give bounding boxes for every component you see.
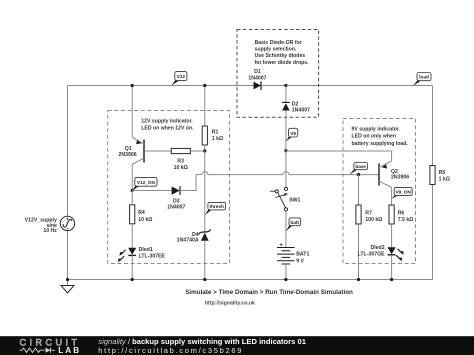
wire bottom ground rail	[68, 279, 433, 281]
junction bottom rail x=286	[284, 278, 287, 281]
wire D2 drop	[285, 86, 287, 151]
svg-text:10 kΩ: 10 kΩ	[138, 217, 152, 223]
node base	[349, 163, 367, 175]
svg-text:V9: V9	[290, 131, 296, 136]
diode D1	[254, 81, 262, 90]
svg-text:LTL-307GE: LTL-307GE	[358, 251, 386, 257]
resistor R6	[389, 188, 394, 248]
junction V12_ON	[131, 189, 134, 192]
svg-text:R7: R7	[365, 211, 372, 217]
node thresh	[205, 202, 226, 215]
junction top rail x=132	[131, 84, 134, 87]
svg-text:12V supply indicator.: 12V supply indicator.	[141, 119, 193, 125]
svg-text:1N4740A: 1N4740A	[177, 238, 199, 244]
footer title text	[98, 337, 306, 346]
resistor R1	[202, 126, 207, 151]
logo LAB	[58, 346, 81, 355]
wire Q1 emitter drop	[131, 86, 133, 138]
svg-text:2N3906: 2N3906	[119, 152, 137, 158]
svg-text:R6: R6	[398, 211, 405, 217]
svg-text:Dled2: Dled2	[370, 245, 384, 251]
svg-text:for lower diode drops.: for lower diode drops.	[255, 60, 310, 66]
svg-text:thresh: thresh	[210, 204, 224, 209]
svg-text:SW1: SW1	[289, 197, 300, 203]
svg-text:1 kΩ: 1 kΩ	[212, 136, 223, 142]
svg-text:base: base	[355, 164, 366, 169]
wire right load vertical	[432, 86, 434, 280]
node V12_ON	[132, 177, 157, 190]
wire Q1 collector drop	[131, 165, 133, 191]
svg-text:R4: R4	[138, 210, 145, 216]
resistor R5	[430, 166, 435, 185]
svg-text:Use Schottky diodes: Use Schottky diodes	[255, 53, 306, 59]
junction bottom rail x=358	[357, 278, 360, 281]
svg-text:10 kΩ: 10 kΩ	[174, 165, 188, 171]
svg-text:9V supply indicator.: 9V supply indicator.	[352, 127, 401, 133]
resistor R3	[171, 148, 205, 153]
node batt	[286, 218, 301, 231]
svg-text:LTL-307EE: LTL-307EE	[139, 253, 166, 259]
diode D2	[282, 102, 290, 110]
junction bottom rail x=132	[131, 278, 134, 281]
label D4 1N4740A	[177, 232, 199, 244]
svg-text:LAB: LAB	[58, 346, 81, 355]
svg-text:2N3906: 2N3906	[391, 174, 409, 180]
note text 12V indicator	[141, 119, 194, 132]
label BAT1 9V	[296, 252, 309, 265]
label R4 10k	[138, 210, 152, 223]
ground	[61, 280, 74, 294]
svg-text:http://signality.co.uk: http://signality.co.uk	[205, 300, 255, 306]
zener diode D4	[199, 230, 211, 280]
svg-text:LED on only when: LED on only when	[352, 134, 397, 140]
junction R1/R3	[203, 149, 206, 152]
node load	[413, 73, 431, 87]
label Q2 2N3906	[391, 169, 409, 181]
svg-text:10 Hz: 10 Hz	[43, 228, 57, 234]
label Q1 2N3906	[119, 146, 137, 158]
note text 9V indicator	[352, 127, 409, 147]
LED Dled2	[388, 247, 404, 279]
svg-text:R1: R1	[212, 129, 219, 135]
label R5 1k	[439, 170, 450, 182]
node V9_ON	[392, 187, 412, 199]
resistor R4	[130, 191, 135, 248]
footer bar	[0, 336, 474, 355]
svg-text:1N4007: 1N4007	[167, 204, 185, 210]
svg-text:Dled1: Dled1	[139, 247, 153, 253]
switch SW1	[270, 151, 288, 211]
logo CIRCUIT	[20, 337, 81, 347]
transistor Q1 2N3906	[132, 138, 171, 165]
label Dled1 LTL-307EE	[139, 247, 166, 259]
label R3 10k	[174, 158, 188, 171]
svg-text:V12: V12	[177, 74, 186, 79]
wire top rail V12/load net	[68, 85, 433, 87]
simulate instruction text	[185, 289, 353, 296]
label Dled2 LTL-307GE	[358, 245, 386, 258]
label R6 7.5k	[398, 211, 414, 223]
wire V12_ON to D3	[132, 190, 171, 192]
svg-text:supply selection.: supply selection.	[255, 47, 297, 53]
node V12	[171, 72, 187, 86]
note box Basic Diode-OR	[237, 30, 319, 118]
junction bottom rail x=392	[390, 278, 393, 281]
voltage source V12V_supply	[60, 216, 74, 230]
note text Basic Diode-OR	[255, 40, 310, 66]
label D2 1N4007	[292, 102, 310, 114]
LED Dled1	[118, 248, 136, 280]
diode D3	[172, 186, 180, 195]
junction V9 node	[284, 149, 287, 152]
svg-text:V12_ON: V12_ON	[137, 180, 156, 185]
svg-text:1 kΩ: 1 kΩ	[439, 176, 450, 182]
svg-text:V9_ON: V9_ON	[396, 190, 412, 195]
svg-text:1N4007: 1N4007	[248, 75, 266, 81]
svg-text:D1: D1	[254, 69, 261, 75]
junction bottom rail x=205	[203, 278, 206, 281]
dashed box 12V indicator	[108, 111, 230, 264]
junction base node	[357, 173, 360, 176]
resistor R7	[356, 175, 361, 280]
svg-text:LED on when 12V on.: LED on when 12V on.	[141, 126, 194, 132]
svg-text:battery supplying load.: battery supplying load.	[352, 141, 409, 147]
svg-text:1N4007: 1N4007	[292, 108, 310, 114]
junction top rail x=205	[203, 84, 206, 87]
dashed box 9V indicator	[343, 119, 416, 264]
label R1 1k	[212, 129, 223, 142]
svg-text:R3: R3	[177, 158, 184, 164]
svg-text:R5: R5	[439, 170, 446, 176]
wire left supply vertical	[67, 86, 69, 280]
transistor Q2 2N3906	[379, 161, 392, 188]
svg-text:Q1: Q1	[125, 146, 132, 152]
junction bottom rail x=67	[66, 278, 69, 281]
svg-text:load: load	[419, 75, 429, 80]
label SW1	[289, 197, 300, 203]
signality url text	[205, 300, 255, 306]
node V9	[286, 128, 298, 141]
svg-text:9 V: 9 V	[296, 258, 304, 264]
label D1 1N4007	[248, 69, 266, 81]
footer url text	[98, 346, 243, 355]
svg-text:7.5 kΩ: 7.5 kΩ	[398, 217, 414, 223]
wire thresh vertical	[204, 151, 206, 232]
svg-text:batt: batt	[291, 220, 300, 225]
wire D3 to base run	[180, 172, 378, 191]
svg-text:100 kΩ: 100 kΩ	[365, 217, 382, 223]
junction top rail x=286 diode-OR output	[284, 84, 287, 87]
svg-text:signality / backup supply swit: signality / backup supply switching with…	[98, 337, 306, 346]
svg-text:Basic Diode-OR for: Basic Diode-OR for	[255, 40, 302, 46]
logo resistor zigzag and diode	[20, 348, 56, 353]
svg-text:BAT1: BAT1	[296, 252, 309, 258]
wire Q2 emitter run	[286, 151, 392, 161]
label V12V_supply sine 10 Hz	[25, 218, 58, 234]
battery BAT1	[277, 211, 295, 280]
wire R1 drop	[204, 86, 206, 127]
svg-text:Simulate > Time Domain > Run T: Simulate > Time Domain > Run Time-Domain…	[185, 289, 353, 296]
svg-text:http://circuitlab.com/c35b269: http://circuitlab.com/c35b269	[98, 346, 243, 355]
label D3 1N4007	[167, 199, 185, 211]
label R7 100k	[365, 211, 382, 223]
